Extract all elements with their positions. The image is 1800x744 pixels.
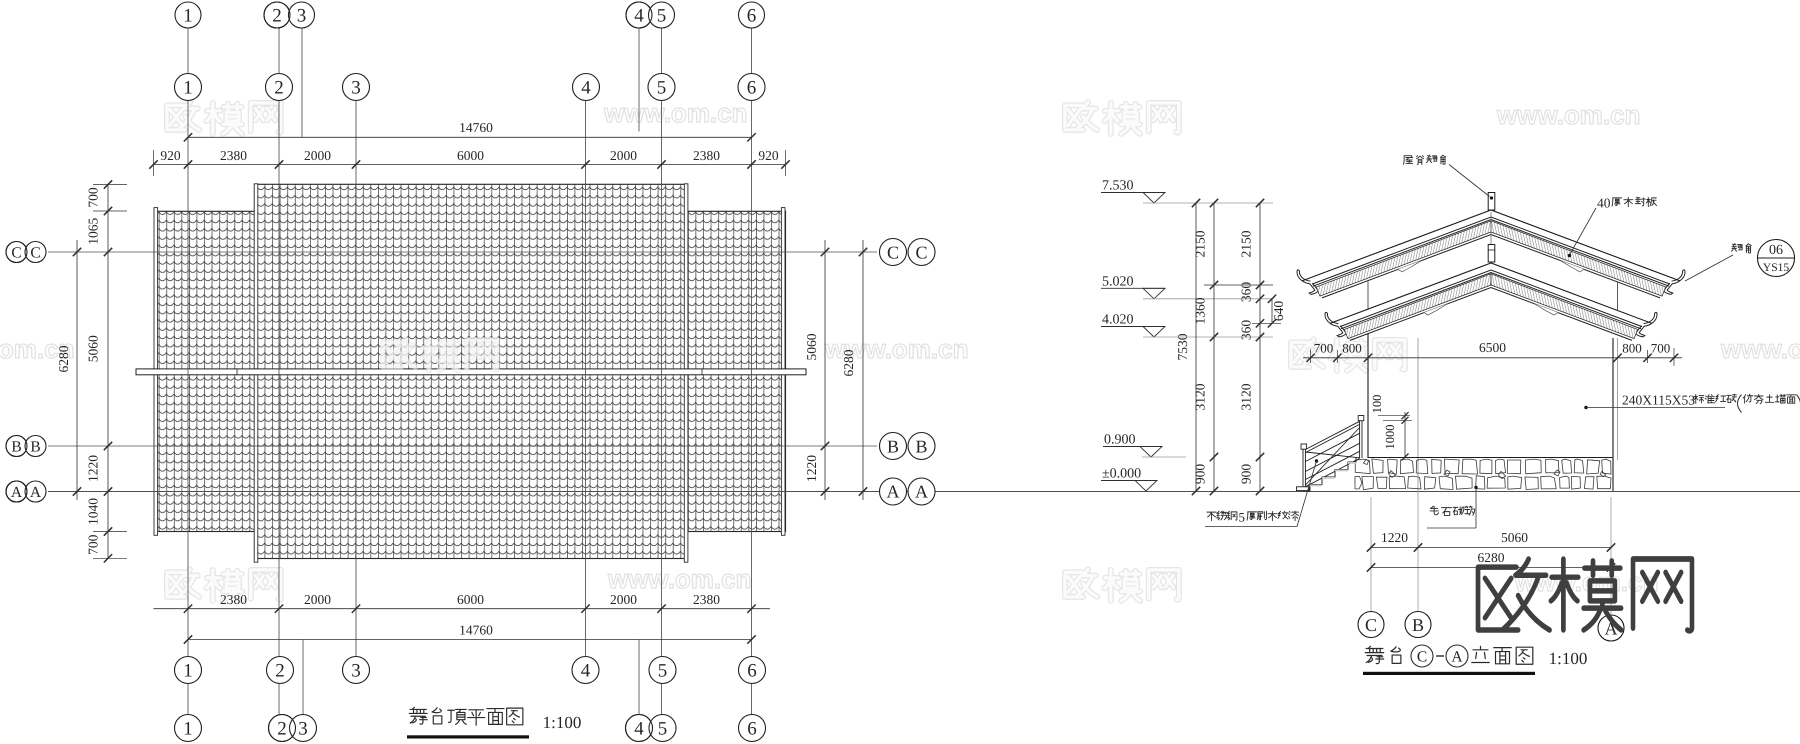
grid bubbles A right pair xyxy=(880,478,936,505)
svg-text:C: C xyxy=(915,243,927,263)
svg-text:www.om.cn: www.om.cn xyxy=(607,564,752,594)
grid bubbles bottom inner row xyxy=(175,657,766,684)
svg-text:2150: 2150 xyxy=(1239,230,1254,257)
svg-text:5060: 5060 xyxy=(1501,530,1528,545)
svg-text:900: 900 xyxy=(1239,464,1254,485)
ridge band xyxy=(136,369,806,375)
svg-text:6: 6 xyxy=(747,6,757,27)
svg-text:6000: 6000 xyxy=(457,148,484,163)
elevation title 舞台C-A立面图 1:100 xyxy=(1363,645,1587,675)
level mark 5.020 xyxy=(1101,274,1273,299)
svg-text:2: 2 xyxy=(274,78,284,99)
plan grid lines C B A xyxy=(48,252,1800,492)
svg-text:5.020: 5.020 xyxy=(1102,274,1134,289)
label 40厚木封板 xyxy=(1568,196,1657,258)
watermark 欧模网 row3 left xyxy=(167,569,199,597)
svg-text:6280: 6280 xyxy=(56,345,71,372)
svg-text:A: A xyxy=(1451,649,1463,666)
svg-text:5: 5 xyxy=(658,661,668,682)
gable edge trim central right xyxy=(684,184,688,562)
svg-text:4.020: 4.020 xyxy=(1102,313,1134,328)
svg-text:3120: 3120 xyxy=(1239,383,1254,410)
svg-text:2: 2 xyxy=(275,661,285,682)
svg-text:700: 700 xyxy=(86,187,101,208)
svg-text:1040: 1040 xyxy=(86,498,101,525)
svg-text:4: 4 xyxy=(634,6,644,27)
level mark 7.530 xyxy=(1101,179,1273,204)
eave tip lower left xyxy=(1325,312,1346,337)
svg-text:700: 700 xyxy=(86,534,101,555)
svg-text:700: 700 xyxy=(1314,341,1334,356)
svg-text:14760: 14760 xyxy=(459,623,493,638)
svg-text:2380: 2380 xyxy=(693,592,720,607)
svg-text:1220: 1220 xyxy=(1381,530,1408,545)
svg-text:B: B xyxy=(887,437,899,457)
wall right xyxy=(1612,338,1614,491)
svg-text:1: 1 xyxy=(183,6,193,27)
lower roof slopes xyxy=(1330,263,1652,340)
svg-text:3: 3 xyxy=(351,661,361,682)
svg-text:C: C xyxy=(11,245,21,262)
wall inner left grid B xyxy=(1417,338,1419,491)
svg-text:06: 06 xyxy=(1769,243,1783,258)
grid bubbles A left pair xyxy=(6,481,46,502)
wall outer left xyxy=(1367,282,1369,311)
gable edge trim right wing xyxy=(781,208,785,536)
roof plan central section tiled xyxy=(255,184,688,558)
watermark 欧模网 row2 mid-left xyxy=(383,339,415,367)
svg-text:1: 1 xyxy=(183,661,193,682)
dim 640 offset xyxy=(1268,295,1286,328)
dim 1220 5060 xyxy=(1367,530,1615,552)
grid bubbles B left pair xyxy=(6,436,46,457)
svg-text:2000: 2000 xyxy=(304,148,331,163)
eave tip lower right xyxy=(1636,312,1657,337)
dim 6280 right xyxy=(841,240,867,500)
svg-text:1:100: 1:100 xyxy=(1549,649,1588,668)
svg-text:5060: 5060 xyxy=(86,335,101,362)
svg-text:B: B xyxy=(30,439,40,456)
svg-text:5: 5 xyxy=(657,6,667,27)
level mark 0.900 xyxy=(1103,433,1186,458)
svg-text:1220: 1220 xyxy=(804,455,819,482)
svg-text:2380: 2380 xyxy=(220,148,247,163)
svg-text:920: 920 xyxy=(160,148,181,163)
dim chain 2150/1360/3120/900 xyxy=(1193,199,1219,495)
svg-text:7530: 7530 xyxy=(1175,333,1190,360)
elevation grid bubbles C B A xyxy=(1358,612,1624,642)
svg-text:2380: 2380 xyxy=(693,148,720,163)
svg-text:B: B xyxy=(1412,615,1424,635)
stairs xyxy=(1303,458,1356,492)
label 不锈钢5厚刷木纹漆 xyxy=(1205,459,1318,526)
svg-text:6500: 6500 xyxy=(1479,340,1506,355)
svg-text:3120: 3120 xyxy=(1193,383,1208,410)
svg-text:B: B xyxy=(915,437,927,457)
svg-text:6280: 6280 xyxy=(841,349,856,376)
svg-text:100: 100 xyxy=(1370,395,1384,414)
svg-text:6000: 6000 xyxy=(457,592,484,607)
svg-text:B: B xyxy=(11,439,21,456)
svg-text:700: 700 xyxy=(1651,341,1671,356)
svg-text:A: A xyxy=(915,482,928,502)
svg-text:C: C xyxy=(30,245,40,262)
svg-text:C: C xyxy=(1417,649,1427,666)
watermark 欧模网 row2 right xyxy=(1291,339,1323,367)
svg-text:920: 920 xyxy=(758,148,779,163)
grid bubbles bottom outer row xyxy=(175,715,766,742)
eave tip upper right xyxy=(1664,270,1685,295)
svg-text:4: 4 xyxy=(581,661,591,682)
apex connector xyxy=(1490,212,1492,245)
dim 14760 top xyxy=(184,120,756,142)
svg-text:0.900: 0.900 xyxy=(1104,433,1136,448)
dim 6280 bottom xyxy=(1367,550,1615,572)
svg-text:1065: 1065 xyxy=(86,217,101,244)
svg-text:240X115X53: 240X115X53 xyxy=(1622,393,1695,408)
svg-text:6: 6 xyxy=(747,719,757,740)
svg-text:900: 900 xyxy=(1193,464,1208,485)
svg-text:YS15: YS15 xyxy=(1763,262,1789,274)
railing with X brace xyxy=(1297,416,1364,491)
svg-text:3: 3 xyxy=(351,78,361,99)
dim 6280 left xyxy=(56,240,81,500)
label 翘角 ref bubble 06/YS15 xyxy=(1685,240,1795,282)
svg-text:C: C xyxy=(887,243,899,263)
svg-text:360: 360 xyxy=(1239,320,1254,341)
svg-text:2: 2 xyxy=(272,6,282,27)
fascia trim waves xyxy=(1398,260,1584,315)
label 240X115X53标准红砖（仿夯土墙面） xyxy=(1584,393,1800,413)
svg-text:6: 6 xyxy=(747,661,757,682)
svg-text:1: 1 xyxy=(183,719,193,740)
grid bubbles top outer row xyxy=(175,2,765,28)
svg-text:4: 4 xyxy=(634,719,644,740)
label 屋脊翘角 xyxy=(1403,155,1489,197)
svg-text:1000: 1000 xyxy=(1383,425,1397,450)
eave tip upper left xyxy=(1297,270,1318,295)
svg-text:A: A xyxy=(11,484,23,501)
svg-text:A: A xyxy=(887,482,900,502)
dim chain bottom 2380/2000/6000/2000/2380 xyxy=(154,592,771,613)
svg-text:2150: 2150 xyxy=(1193,230,1208,257)
svg-text:2000: 2000 xyxy=(610,148,637,163)
svg-text:3: 3 xyxy=(297,6,307,27)
dim 700 800 6500 800 700 xyxy=(1303,340,1682,366)
dim 14760 bottom xyxy=(184,623,756,644)
svg-text:5: 5 xyxy=(658,719,668,740)
stone rubble base 毛石砌筑 xyxy=(1355,458,1613,490)
svg-text:www.om.cn: www.om.cn xyxy=(603,98,748,128)
svg-text:1220: 1220 xyxy=(86,455,101,482)
watermark overlays on drawing xyxy=(383,339,415,367)
level mark ±0.000 xyxy=(1101,467,1157,492)
svg-text:800: 800 xyxy=(1622,341,1642,356)
svg-text:6: 6 xyxy=(747,78,757,99)
plan title 舞台顶平面图 1:100 xyxy=(407,707,581,738)
svg-text:2000: 2000 xyxy=(610,592,637,607)
svg-text:www.om.cn: www.om.cn xyxy=(1496,100,1641,130)
label 毛石砌筑 xyxy=(1427,486,1478,528)
watermark 欧模网 row1 right xyxy=(1065,102,1097,130)
svg-text:5: 5 xyxy=(657,78,667,99)
grid bubbles C right pair xyxy=(880,239,936,266)
svg-text:2: 2 xyxy=(277,719,287,740)
svg-text:4: 4 xyxy=(581,78,591,99)
svg-text:5: 5 xyxy=(1239,510,1246,525)
grid bubbles C left pair xyxy=(6,242,46,263)
svg-text:6280: 6280 xyxy=(1478,550,1505,565)
dim chain top 920/2380/2000/6000/2000/2380/920 xyxy=(149,148,789,176)
svg-text:1360: 1360 xyxy=(1193,297,1208,324)
dim chain 2150/360/640/360/3120/900 xyxy=(1204,199,1281,495)
elevation bottom extension lines xyxy=(1371,491,1611,614)
grid bubbles top inner row xyxy=(175,74,766,101)
svg-text:800: 800 xyxy=(1342,341,1362,356)
svg-text:A: A xyxy=(30,484,42,501)
svg-text:640: 640 xyxy=(1271,301,1286,322)
dim 100 1000 railing xyxy=(1370,395,1412,461)
svg-text:14760: 14760 xyxy=(459,120,493,135)
ridge ornament lower apex xyxy=(1488,245,1495,263)
svg-text:2000: 2000 xyxy=(304,592,331,607)
watermark 欧模网 row1 left xyxy=(167,102,199,130)
svg-text:3: 3 xyxy=(298,719,308,740)
ridge ornament upper apex xyxy=(1488,193,1495,211)
grid bubbles B right pair xyxy=(880,433,936,460)
gable edge trim central left xyxy=(254,184,258,562)
dim chain left 700/1065/5060/1220/1040/700 xyxy=(86,180,128,562)
gable edge trim left wing xyxy=(154,208,158,536)
dim chain 7530 xyxy=(1175,199,1200,495)
level mark 4.020 xyxy=(1101,313,1273,338)
big logo 欧模网 bottom right xyxy=(1478,559,1692,631)
watermark 欧模网 row3 right xyxy=(1065,569,1097,597)
svg-text:www.om.cn: www.om.cn xyxy=(1720,334,1800,364)
svg-text:7.530: 7.530 xyxy=(1102,179,1134,194)
roof plan left wing tiled xyxy=(156,211,256,531)
svg-text:C: C xyxy=(1365,615,1377,635)
svg-text:40: 40 xyxy=(1597,196,1611,211)
dim chain right 5060/1220 xyxy=(804,240,829,500)
svg-text:2380: 2380 xyxy=(220,592,247,607)
wall right extension xyxy=(1617,282,1619,311)
svg-text:1:100: 1:100 xyxy=(543,713,582,732)
plan grid lines 1-6 xyxy=(188,28,752,715)
svg-text:5060: 5060 xyxy=(804,333,819,360)
svg-text:±0.000: ±0.000 xyxy=(1102,467,1141,482)
upper roof slopes xyxy=(1302,210,1680,298)
svg-text:1: 1 xyxy=(183,78,193,99)
roof plan right wing tiled xyxy=(686,211,786,531)
